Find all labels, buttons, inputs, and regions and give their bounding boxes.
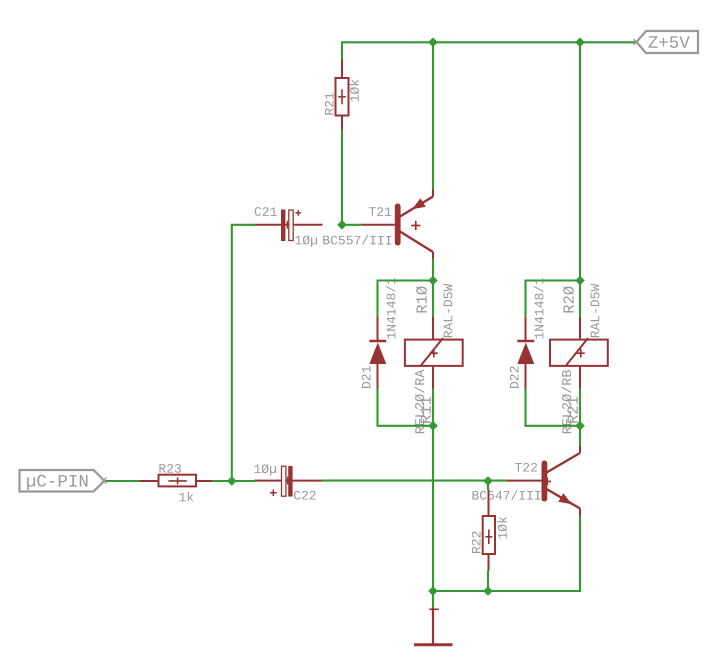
capacitor C22 (255, 466, 323, 497)
wire node to T21 base pin (342, 224, 361, 226)
wire relay1 node to ground rail (432, 426, 434, 591)
svg-text:Z+5V: Z+5V (648, 34, 691, 54)
resistor R21 (336, 58, 349, 131)
wire C22 to T22 base (322, 480, 506, 482)
wire T21 collector to relay node (432, 260, 434, 281)
svg-text:1N4148/1: 1N4148/1 (532, 277, 547, 340)
svg-text:R2Ø: R2Ø (561, 286, 579, 314)
wire R22 bottom stub (487, 571, 489, 591)
svg-text:1Øµ: 1Øµ (294, 233, 317, 248)
svg-text:1Øk: 1Øk (348, 79, 363, 103)
svg-text:µC-PIN: µC-PIN (26, 473, 89, 493)
wire D21 bottom stub (376, 390, 378, 426)
svg-text:1Øµ: 1Øµ (253, 462, 276, 477)
transistor T22 (506, 445, 580, 517)
wire D22 top horizontal (526, 279, 581, 281)
svg-text:T22: T22 (514, 461, 537, 476)
svg-text:D22: D22 (507, 366, 522, 389)
wire top +5V rail (342, 41, 637, 43)
wire D22 top stub (524, 281, 526, 317)
resistor R22 (483, 490, 495, 572)
svg-text:C22: C22 (293, 489, 316, 504)
wire ground stub (432, 591, 434, 608)
wire D21 top horizontal (378, 279, 434, 281)
wire +5V to T21 emitter (432, 42, 434, 188)
transistor T21 (361, 189, 433, 260)
diode D21 (369, 316, 386, 390)
svg-text:1k: 1k (178, 490, 194, 505)
emitter arrow T21 (412, 198, 426, 209)
origin cross relay 2 (577, 349, 585, 357)
wire relay2 bottom stub (579, 390, 581, 426)
origin cross T22 (544, 478, 552, 486)
junction ground rail / ground (428, 586, 438, 596)
wire R23 to C22 node (213, 480, 255, 482)
ground (414, 608, 453, 646)
wire D21 top stub (376, 281, 378, 317)
wire T22 emitter to ground rail (433, 517, 580, 592)
svg-text:T21: T21 (368, 205, 392, 220)
wire D22 bottom horizontal (526, 425, 581, 427)
relay coil R20/R21 (550, 316, 608, 390)
junction C21 loop / R23 / C22 (227, 476, 237, 486)
polarity + C22 (270, 490, 277, 496)
power flag Z+5V (634, 31, 699, 54)
svg-text:BC547/III: BC547/III (471, 489, 541, 504)
polarity + C21 (295, 210, 301, 216)
wire relay1 top stub (432, 281, 434, 317)
wire R21 bottom to T21 base node (341, 131, 343, 225)
wire C21 left loop down (232, 225, 255, 481)
wire R22 top stub (487, 481, 489, 490)
svg-text:1N4148/1: 1N4148/1 (384, 277, 399, 340)
junction R21 / C21 / T21 base (337, 220, 347, 230)
junction base net / R22 (483, 476, 493, 486)
net flag µC-PIN (20, 470, 107, 493)
svg-text:D21: D21 (359, 365, 374, 389)
junction +5V / right branch (575, 38, 585, 48)
wire D21 bottom horizontal (378, 425, 434, 427)
wire +5V down right branch (579, 42, 581, 316)
origin cross T21 (411, 221, 420, 230)
svg-text:C21: C21 (254, 205, 278, 220)
relay coil R10/R11 (405, 316, 463, 390)
wire µC-PIN to R23 (106, 480, 139, 482)
resistor R23 (139, 475, 213, 487)
origin cross relay 1 (430, 349, 438, 357)
svg-text:RAL-D5W: RAL-D5W (588, 283, 603, 338)
svg-text:1Øk: 1Øk (496, 516, 511, 540)
capacitor C21 (255, 210, 323, 242)
junction relay1 bottom / D21 (428, 421, 438, 431)
wire R21 top stub (341, 42, 343, 58)
svg-text:R1Ø: R1Ø (414, 286, 432, 314)
svg-text:RAL-D5W: RAL-D5W (441, 283, 456, 338)
wire relay2 node to T22 collector (579, 426, 581, 445)
origin cross R21 (338, 89, 345, 104)
junction T21 collector / relay1 / D21 (428, 276, 438, 286)
wire relay1 bottom stub (432, 390, 434, 426)
svg-text:BC557/III: BC557/III (322, 233, 392, 248)
diode D22 (517, 316, 534, 390)
origin cross R22 (485, 530, 492, 545)
wire D22 bottom stub (524, 390, 526, 426)
origin cross R23 (168, 477, 186, 484)
junction ground rail / R22 (483, 586, 493, 596)
junction right branch / D22 (575, 276, 585, 286)
junction +5V / T21 emitter (428, 38, 438, 48)
junction relay2 bottom / D22 / T22 collector (575, 421, 585, 431)
emitter arrow T22 (558, 493, 572, 504)
